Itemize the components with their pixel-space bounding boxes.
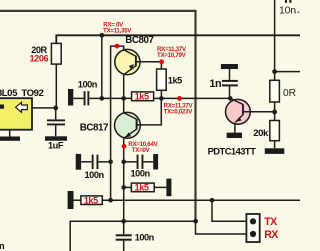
ground bar under 1uF: [45, 136, 67, 140]
connector TX/RX: [246, 214, 259, 242]
node 1k5 bottom junction: [159, 96, 164, 101]
wire cap to node: [89, 97, 102, 99]
node base net left junction: [100, 96, 105, 101]
wire BC817 emitter column: [123, 138, 125, 221]
IC 78L05 regulator body: [0, 98, 32, 130]
svg-text:0R: 0R: [283, 88, 296, 99]
node row A TX branch: [210, 198, 215, 203]
wire PDTC base to divider node: [243, 111, 275, 113]
pin marker: [0, 105, 4, 109]
svg-text:RX: RX: [264, 229, 278, 241]
wire: [124, 186, 132, 188]
ground bar under PDTC: [227, 133, 242, 138]
capacitor C 100n right plates: [137, 155, 139, 169]
svg-text:BC817: BC817: [80, 122, 109, 133]
wire big 100n stem: [123, 221, 125, 251]
svg-text:1k5: 1k5: [84, 195, 98, 205]
transistor Q PDTC143TT: [226, 99, 251, 124]
node at column x110.6: [108, 160, 113, 165]
resistor R 20k: [270, 121, 280, 141]
ground bar of top 100n: [68, 89, 73, 106]
svg-text:1k5: 1k5: [135, 92, 149, 102]
svg-text:78L05 TO92: 78L05 TO92: [0, 88, 44, 99]
ground bar right of 1k5: [166, 179, 171, 197]
svg-text:PDTC143TT: PDTC143TT: [208, 146, 256, 157]
svg-text:1k5: 1k5: [168, 76, 182, 86]
wire BC807 base to 1k5: [136, 62, 162, 69]
svg-text:1n: 1n: [209, 78, 221, 90]
svg-text:100n: 100n: [131, 168, 151, 178]
wire branch to edge: [275, 71, 300, 73]
transistor Q BC817: [115, 112, 141, 138]
node row A x110.6: [108, 198, 113, 203]
ground bar row A left: [68, 191, 74, 209]
wire TX branch: [212, 200, 246, 221]
wire column x110.6 with BC807 top lead: [111, 46, 124, 200]
resistor R 1k5 left box: [81, 196, 102, 205]
ground bar under 78L05: [0, 137, 20, 141]
wire gnd to cap: [73, 97, 83, 99]
svg-text:1206: 1206: [30, 54, 49, 64]
node row B x123.7: [121, 219, 126, 224]
wire 1uF stems: [55, 108, 57, 136]
node right 1k5 row: [121, 185, 126, 190]
node 0R/20k junction: [272, 110, 277, 115]
wire: [81, 161, 92, 163]
svg-text:10n: 10n: [279, 5, 296, 17]
wire row B: [70, 221, 195, 251]
node right column branch: [272, 69, 277, 74]
capacitor C 100n top-left plates: [84, 91, 86, 105]
wire BC807 emitter to BC817 collector: [123, 75, 125, 113]
wire: [143, 161, 153, 163]
wire: [98, 161, 110, 163]
wire RX drop to connector: [196, 221, 247, 234]
svg-text:100n: 100n: [85, 170, 105, 180]
ground bar above 1n: [221, 64, 238, 69]
ground bar under 20k: [265, 148, 285, 154]
svg-text:100n: 100n: [78, 80, 98, 90]
node at column x123.7: [121, 160, 126, 165]
svg-text:20k: 20k: [253, 128, 269, 139]
capacitor C 100n left plates: [92, 155, 94, 169]
svg-text:TX: TX: [264, 216, 277, 228]
node base net x123.7: [121, 96, 126, 101]
ground bar left 100n: [76, 154, 81, 170]
wire 1n stem: [229, 69, 231, 98]
wire row A: [102, 199, 300, 201]
capacitor C 1uF plates: [47, 119, 65, 121]
red marker node BC817 emitter: [122, 144, 127, 149]
capacitor C 100n bottom plates: [116, 234, 132, 236]
svg-text:100n: 100n: [135, 232, 155, 242]
wire 20R bottom to node: [55, 64, 57, 108]
resistor R 20R: [51, 43, 61, 64]
wire right column x274.6: [274, 0, 276, 148]
transistor Q BC807: [115, 49, 140, 74]
svg-text:TX=11,35V: TX=11,35V: [103, 28, 132, 35]
wire box to junction: [154, 97, 161, 99]
svg-text:TX=0V: TX=0V: [132, 147, 151, 154]
svg-text:TX=0,023V: TX=0,023V: [164, 109, 194, 116]
wire BC817 base up to node: [137, 98, 162, 125]
svg-text:1k5: 1k5: [135, 183, 149, 193]
wire regulator to node: [32, 107, 56, 109]
red marker node: [177, 96, 182, 101]
resistor R 1k5 right box: [131, 183, 154, 192]
arrow symbol on 78L05: [16, 102, 28, 112]
svg-text:1uF: 1uF: [48, 141, 64, 151]
resistor R 1k5 box mid (series): [132, 92, 154, 101]
node 1n cap junction: [228, 96, 233, 101]
wire: [154, 186, 166, 188]
wire 78L05 gnd stem: [9, 130, 11, 137]
wire base net y98.4: [102, 97, 132, 99]
wire 1k5 bottom: [160, 90, 162, 98]
wire column x101.8: [101, 35, 103, 98]
resistor R 0R: [270, 80, 280, 102]
svg-text:BC807: BC807: [125, 35, 154, 46]
wire PDTC emitter stem: [234, 123, 236, 133]
ground bar right 100n: [153, 154, 158, 170]
wire row A start: [74, 199, 81, 201]
fragment above 10n: [285, 0, 287, 3]
wire: [124, 161, 137, 163]
capacitor C 1n plates: [222, 80, 238, 82]
wire top rail to RX vertical: [0, 11, 196, 221]
red marker node BC807 top: [115, 44, 120, 49]
svg-text:TX=10,79V: TX=10,79V: [157, 52, 187, 59]
node row B RX junction: [193, 219, 198, 224]
wire base net to PDTC: [161, 97, 230, 99]
node rail2 junction x101.8: [99, 33, 104, 38]
node 78L05 output junction: [53, 106, 58, 111]
red marker node at 1k5 top: [159, 59, 164, 64]
wire 12V rail2: [56, 35, 300, 43]
resistor R 1k5 vertical: [157, 69, 167, 90]
